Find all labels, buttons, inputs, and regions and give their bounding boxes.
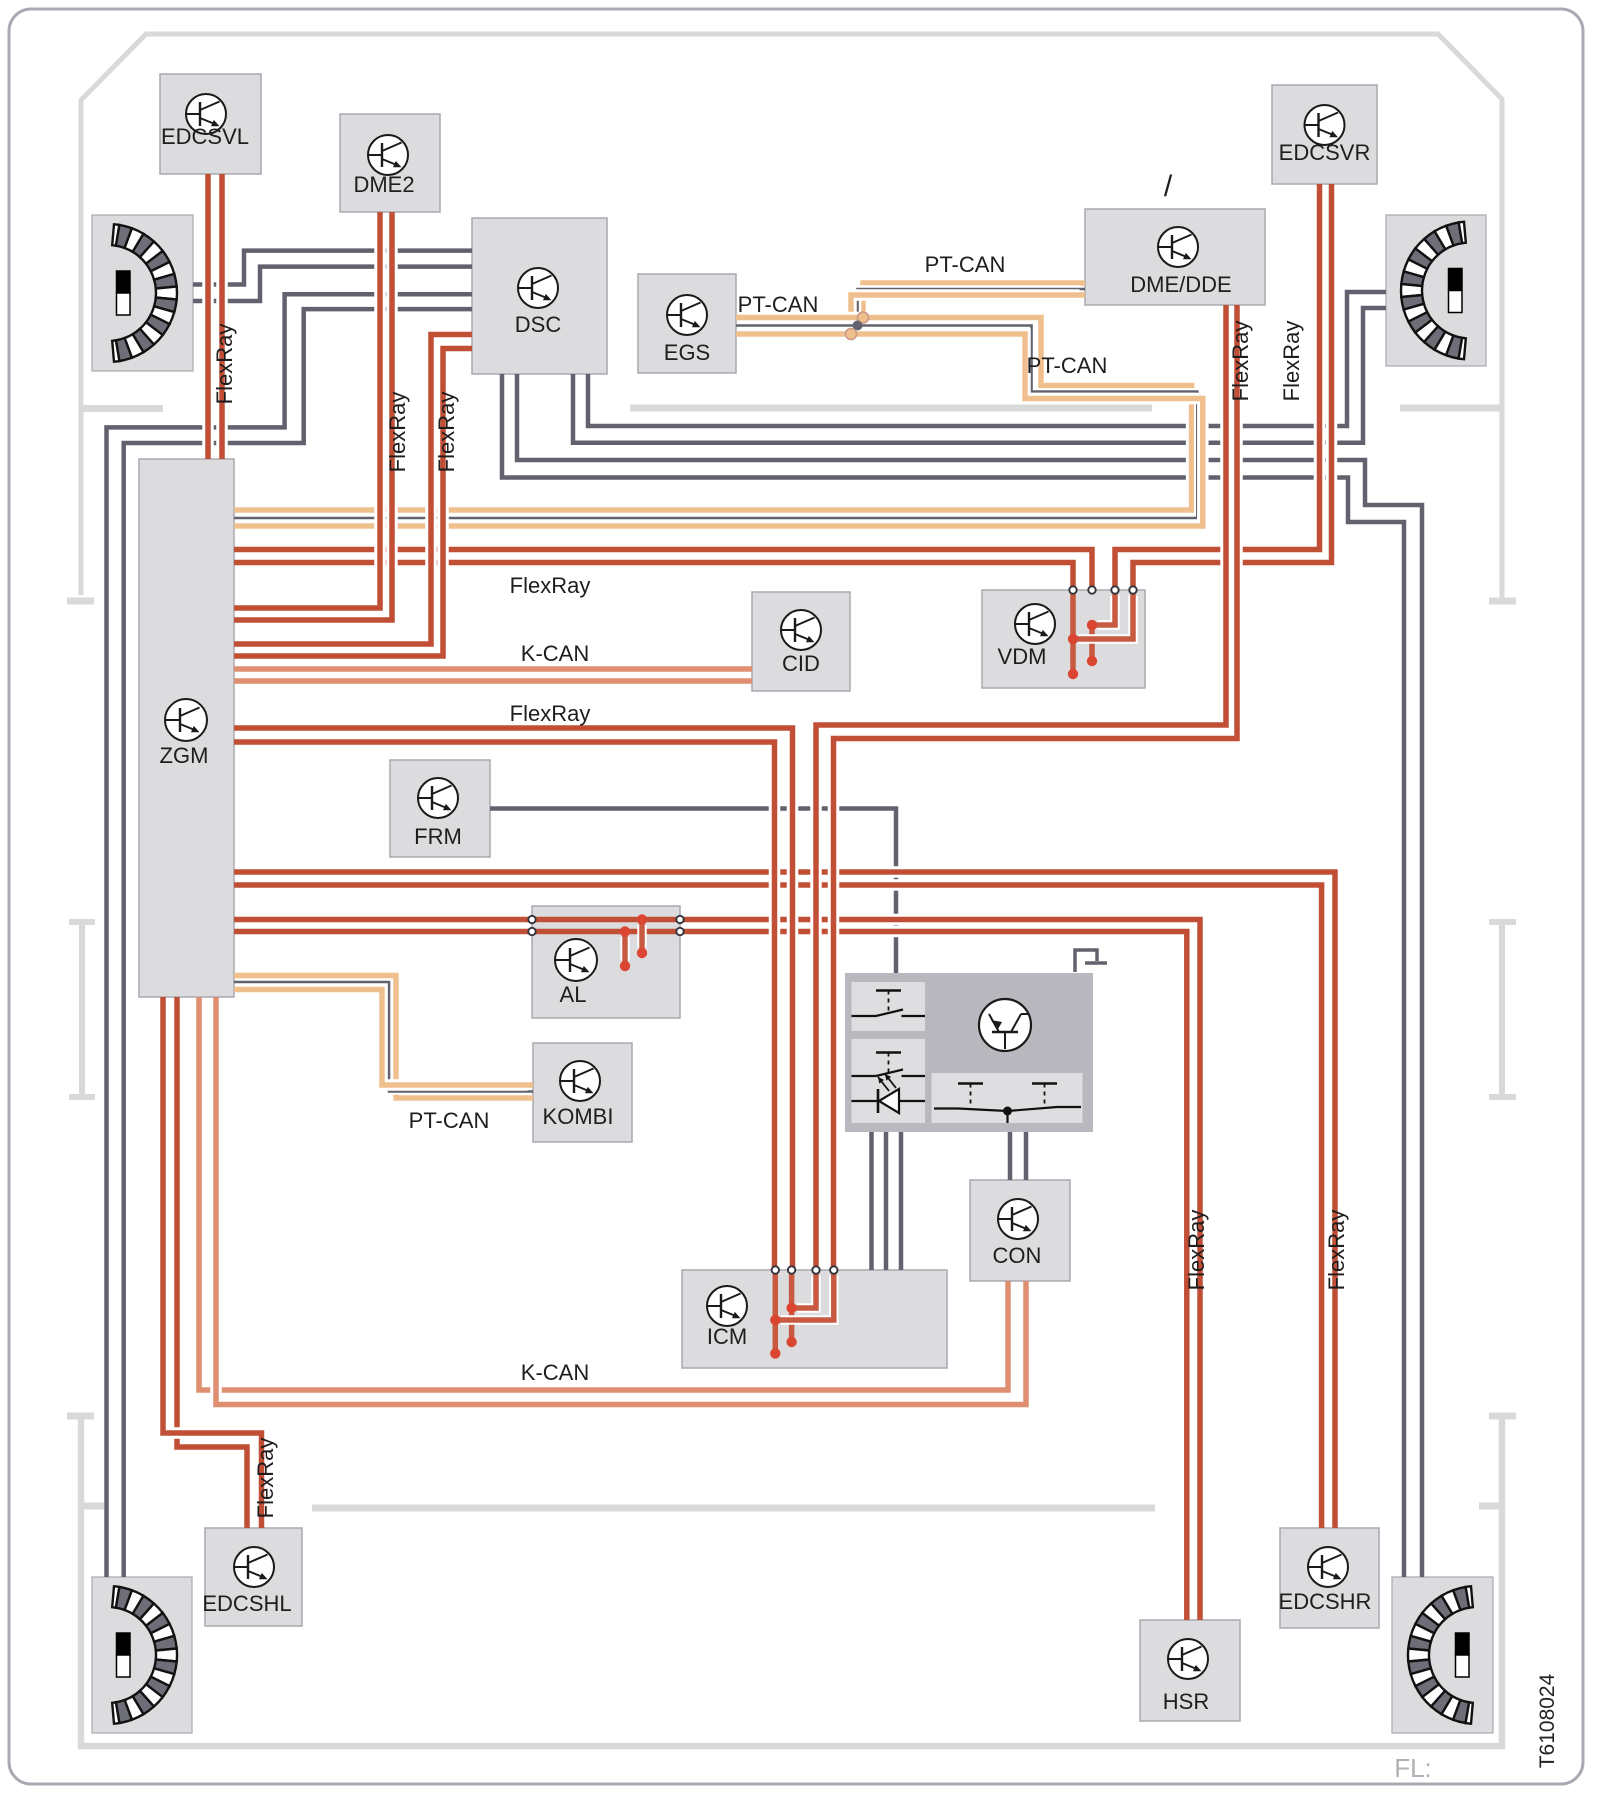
FlexRay bus VDM to EDCSVR [1115,190,1320,585]
wheel sensor line rear-right 4 [502,374,1404,1577]
wheel sensor line rear-left D [124,309,472,1577]
K-CAN bus ZGM to CID [240,663,747,675]
svg-text:FlexRay: FlexRay [434,392,459,473]
car body outline [81,34,1502,601]
FlexRay bus EDCSVL to ZGM [202,180,214,454]
wheel speed sensor rear right [1392,1577,1493,1733]
svg-text:FlexRay: FlexRay [1279,321,1304,402]
svg-text:PT-CAN: PT-CAN [409,1108,490,1133]
ECU box KOMBI [533,1043,632,1142]
wheel sensor line front-right 1 [588,292,1386,426]
wheel sensor line front-left B [193,267,472,301]
FlexRay bus DME/DDE to ICM [816,311,1226,1265]
ECU box DME/DDE [1085,209,1265,305]
svg-text:VDM: VDM [998,644,1047,669]
svg-text:/: / [1164,170,1173,203]
svg-text:FlexRay: FlexRay [385,392,410,473]
svg-text:FL:: FL: [1394,1753,1432,1783]
svg-text:EGS: EGS [664,340,710,365]
ECU box DME2 [340,114,440,212]
svg-text:ICM: ICM [707,1324,747,1349]
svg-text:DSC: DSC [515,312,562,337]
ICM internal stubs [773,1270,779,1353]
door cut line right middle [1499,922,1505,1097]
VDM junction dots [1068,634,1078,644]
front door cap right [1489,598,1516,605]
svg-text:FlexRay: FlexRay [510,573,591,598]
ICM junction dots [786,1303,796,1313]
switch symbol 2 [852,1075,877,1077]
wheel sensor line rear-left C [107,294,473,1577]
switch sub-box 1 [852,982,926,1031]
svg-text:PT-CAN: PT-CAN [1027,353,1108,378]
svg-text:T6108024: T6108024 [1536,1673,1559,1768]
FlexRay bus DSC to ZGM [240,335,467,645]
VDM internal stubs [1070,590,1076,674]
FlexRay bus DME2 to ZGM [240,218,381,609]
svg-text:FRM: FRM [414,824,462,849]
wheel sensor line front-left A [193,251,472,285]
svg-text:FlexRay: FlexRay [253,1438,278,1519]
front bulkhead tick left [81,405,163,412]
double switch sub-box [932,1073,1083,1123]
ECU box VDM [982,590,1145,688]
cluster transistor symbol [979,999,1031,1051]
rear door cap left [67,1413,94,1420]
ECU box HSR [1140,1620,1240,1721]
VDM terminals [1069,586,1076,593]
svg-text:FlexRay: FlexRay [1324,1210,1349,1291]
switch sub-box 2 with LED [852,1039,926,1123]
svg-text:K-CAN: K-CAN [521,641,589,666]
svg-text:PT-CAN: PT-CAN [925,252,1006,277]
PT-CAN bus ZGM to KOMBI [240,976,528,1099]
ECU box AL [532,906,680,1018]
car outline bottom [81,1419,1502,1746]
svg-text:CON: CON [993,1243,1042,1268]
ICM terminals [772,1266,779,1273]
wheel speed sensor front left [92,215,193,371]
svg-text:HSR: HSR [1163,1689,1209,1714]
wheel sensor line rear-right 3 [517,374,1422,1577]
ECU box ICM [682,1270,947,1368]
svg-text:CID: CID [782,651,820,676]
svg-text:EDCSVR: EDCSVR [1279,140,1371,165]
ECU box EGS [638,274,736,373]
cluster to CON wires [1008,1132,1013,1180]
PT-CAN junction dots [858,312,869,323]
ECU box CID [752,592,850,691]
ECU box DSC [472,218,607,374]
ECU box ZGM [139,459,234,997]
svg-text:EDCSHL: EDCSHL [202,1591,291,1616]
front bulkhead tick right [1400,405,1502,412]
PT-CAN branch to DME/DDE [863,283,1080,312]
double switch symbol [958,1082,983,1084]
FlexRay bus ZGM to EDCSHL [177,1003,247,1523]
svg-text:PT-CAN: PT-CAN [738,292,819,317]
switch cluster box [845,973,1093,1132]
windshield line [630,405,1152,412]
FlexRay bus ZGM to HSR through AL [240,914,527,926]
FRM wire to switch cluster [490,809,896,974]
svg-text:EDCSHR: EDCSHR [1279,1589,1372,1614]
svg-text:ZGM: ZGM [160,743,209,768]
cluster to ICM wires [869,1132,874,1270]
wheel speed sensor rear left [92,1577,192,1733]
svg-text:FlexRay: FlexRay [212,324,237,405]
AL terminals [528,916,535,923]
ground symbol [1075,950,1097,972]
ECU box EDCSVR [1272,85,1377,184]
rear door tick right [1479,1503,1502,1510]
ECU box EDCSHR [1280,1528,1379,1628]
svg-text:DME2: DME2 [353,172,414,197]
ECU box EDCSHL [205,1528,302,1626]
K-CAN bus ZGM to CON [199,1003,1008,1391]
svg-text:K-CAN: K-CAN [521,1360,589,1385]
LED symbol [852,1100,879,1102]
wheel sensor line front-right 2 [573,308,1386,443]
svg-text:DME/DDE: DME/DDE [1130,272,1231,297]
ECU box CON [970,1180,1070,1281]
svg-text:FlexRay: FlexRay [510,701,591,726]
door cut line left middle [79,922,85,1097]
FlexRay bus ZGM to VDM (upper pair) [240,550,1093,585]
rear door tick left [81,1503,104,1510]
AL junction dots [637,914,647,924]
ECU box FRM [390,760,490,857]
ECU box EDCSVL [160,74,261,174]
svg-text:KOMBI: KOMBI [543,1104,614,1129]
svg-text:FlexRay: FlexRay [1228,321,1253,402]
wheel speed sensor front right [1386,215,1486,366]
FlexRay bus ZGM to ICM [240,728,793,1265]
svg-text:FlexRay: FlexRay [1184,1210,1209,1291]
svg-text:EDCSVL: EDCSVL [161,124,249,149]
svg-text:AL: AL [560,982,587,1007]
front door cap left [67,598,94,605]
PT-CAN bus EGS to DME/DDE and ZGM [240,318,1192,511]
AL internal stubs [637,925,647,948]
rear shelf line [312,1505,1155,1512]
switch symbol 1 [852,1015,877,1017]
rear door cap right [1489,1413,1516,1420]
FlexRay bus ZGM to EDCSHR [240,872,1336,1523]
